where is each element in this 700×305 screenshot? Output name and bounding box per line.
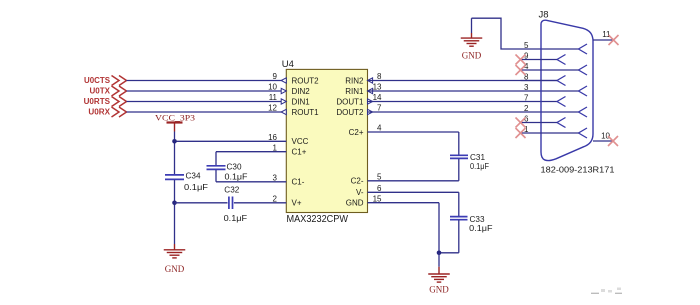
svg-text:V+: V+ bbox=[292, 199, 302, 208]
svg-text:U0TX: U0TX bbox=[90, 87, 111, 96]
J8 pin 5 contact bbox=[579, 44, 588, 54]
svg-text:RIN1: RIN1 bbox=[345, 87, 364, 96]
svg-text:0.1μF: 0.1μF bbox=[224, 213, 248, 223]
svg-text:C2+: C2+ bbox=[349, 128, 364, 137]
svg-text:U4: U4 bbox=[282, 59, 294, 70]
svg-text:9: 9 bbox=[273, 72, 278, 81]
wire V+ right segment to pin2 bbox=[234, 202, 286, 204]
no-connect X pin 10 bbox=[608, 136, 618, 146]
U4 pin ROUT1 output arrow bbox=[281, 109, 286, 114]
svg-text:11: 11 bbox=[602, 30, 611, 39]
ground GND left bbox=[164, 244, 186, 258]
U4 pin RIN2 input arrow bbox=[368, 78, 373, 83]
wire DOUT1 to J8 pin7 bbox=[368, 101, 558, 103]
svg-text:U0CTS: U0CTS bbox=[84, 76, 111, 85]
U4 pin ROUT2 output arrow bbox=[281, 78, 286, 83]
wire J8 pin 8 inner bbox=[521, 80, 558, 82]
svg-text:U0RX: U0RX bbox=[88, 108, 110, 117]
capacitor C31 bbox=[450, 155, 468, 158]
svg-text:J8: J8 bbox=[539, 10, 549, 21]
svg-text:0.1μF: 0.1μF bbox=[469, 223, 492, 233]
svg-text:U0RTS: U0RTS bbox=[84, 97, 111, 106]
wire J8 pin 6 stub bbox=[521, 122, 558, 124]
op IC U4 MAX3232CPW body bbox=[286, 69, 367, 212]
svg-text:3: 3 bbox=[273, 174, 278, 183]
wire C33 top drop bbox=[458, 192, 460, 216]
svg-text:VCC_3P3: VCC_3P3 bbox=[155, 112, 195, 122]
J8 pin 4 contact bbox=[579, 65, 588, 75]
no-connect X pin 11 bbox=[609, 35, 619, 45]
wire C30 bottom bbox=[215, 170, 217, 182]
svg-text:0.1μF: 0.1μF bbox=[470, 161, 489, 171]
wire U0CTS to U4 bbox=[127, 80, 287, 82]
wire C31 bottom drop bbox=[458, 159, 460, 181]
wire J8 pin 11 stub bbox=[593, 39, 614, 41]
wire C1+ to pin1 bbox=[216, 151, 286, 153]
U4 pin DOUT1 output arrow bbox=[368, 99, 373, 104]
svg-text:16: 16 bbox=[268, 133, 277, 142]
svg-text:GND: GND bbox=[429, 285, 449, 295]
capacitor C30 bbox=[207, 166, 226, 170]
svg-text:MAX3232CPW: MAX3232CPW bbox=[287, 214, 349, 225]
svg-text:1: 1 bbox=[273, 143, 278, 152]
wire GND pin15 bbox=[368, 202, 440, 204]
J8 pin 6 contact bbox=[557, 118, 566, 128]
wire C2+ pin4 bbox=[368, 131, 459, 133]
no-connect X pin 6 bbox=[516, 118, 526, 128]
no-connect X pin 1 bbox=[516, 128, 526, 138]
svg-text:5: 5 bbox=[377, 173, 382, 182]
svg-text:4: 4 bbox=[377, 124, 382, 133]
svg-text:RIN2: RIN2 bbox=[345, 76, 364, 85]
svg-text:2: 2 bbox=[524, 104, 529, 113]
svg-text:7: 7 bbox=[524, 94, 529, 103]
wire DOUT2 to J8 pin2 bbox=[368, 111, 579, 113]
capacitor C32 bbox=[229, 197, 233, 210]
svg-text:15: 15 bbox=[373, 194, 382, 203]
svg-text:DOUT2: DOUT2 bbox=[336, 108, 364, 117]
wire C33 bottom to junction bbox=[439, 252, 459, 254]
no-connect X pin 4 bbox=[516, 65, 526, 75]
wire J8 pin 1 stub bbox=[521, 132, 579, 134]
connector J8 shell bbox=[541, 20, 593, 160]
ground GND bottom bbox=[428, 267, 450, 282]
svg-text:182-009-213R171: 182-009-213R171 bbox=[541, 165, 615, 175]
wire pin15 drop bbox=[438, 203, 440, 253]
svg-text:5: 5 bbox=[524, 41, 529, 50]
capacitor C33 bbox=[450, 217, 468, 220]
svg-text:DIN1: DIN1 bbox=[292, 97, 311, 106]
J8 pin 9 contact bbox=[557, 55, 566, 65]
U4 pin DIN1 input arrow bbox=[281, 99, 286, 104]
J8 pin 2 contact bbox=[579, 107, 588, 117]
wire U0RTS to U4 bbox=[127, 101, 287, 103]
svg-text:DOUT1: DOUT1 bbox=[336, 97, 364, 106]
junction VCC rail bbox=[172, 139, 177, 144]
wire J8 pin 10 stub bbox=[593, 140, 614, 142]
svg-text:DIN2: DIN2 bbox=[292, 87, 311, 96]
svg-text:2: 2 bbox=[273, 195, 278, 204]
wire V+ left segment bbox=[175, 202, 228, 204]
svg-text:ROUT1: ROUT1 bbox=[292, 108, 320, 117]
svg-text:VCC: VCC bbox=[292, 137, 309, 146]
wire rail below C34 bbox=[174, 180, 176, 244]
wire VCC to pin16 bbox=[175, 140, 287, 142]
wire GND stem blue bbox=[471, 18, 473, 33]
J8 pin 8 contact bbox=[557, 76, 566, 86]
svg-text:10: 10 bbox=[268, 83, 277, 92]
wire RIN2 to J8 pin8 bbox=[368, 80, 558, 82]
capacitor C34 bbox=[165, 175, 184, 180]
wire C30 top bbox=[215, 152, 217, 166]
wire V- pin6 bbox=[368, 191, 459, 193]
wire J8 pin 9 stub bbox=[521, 59, 558, 61]
svg-text:3: 3 bbox=[524, 83, 529, 92]
wire C33 bottom drop bbox=[458, 220, 460, 253]
svg-text:6: 6 bbox=[377, 184, 382, 193]
svg-text:C1-: C1- bbox=[292, 178, 305, 187]
svg-text:11: 11 bbox=[269, 93, 278, 102]
svg-text:V-: V- bbox=[356, 188, 364, 197]
no-connect X pin 9 bbox=[516, 55, 526, 65]
junction GND net bbox=[437, 251, 442, 256]
svg-text:C30: C30 bbox=[227, 162, 242, 172]
svg-text:GND: GND bbox=[165, 264, 185, 274]
J8 pin 1 contact bbox=[579, 128, 588, 138]
U4 pin RIN1 input arrow bbox=[368, 88, 373, 93]
svg-text:GND: GND bbox=[346, 199, 364, 208]
power VCC_3P3 bar bbox=[167, 121, 183, 123]
junction V+ rail bbox=[172, 201, 177, 206]
J8 pin 7 contact bbox=[557, 97, 566, 107]
J8 pin 3 contact bbox=[579, 86, 588, 96]
wire VCC rail top bbox=[174, 132, 176, 175]
wire C31 top drop bbox=[458, 132, 460, 155]
wire RIN1 to J8 pin3 bbox=[368, 90, 579, 92]
wire C2- pin5 bbox=[368, 180, 459, 182]
wire GND top to J8 pin5 bbox=[472, 18, 579, 49]
svg-text:0.1μF: 0.1μF bbox=[184, 182, 208, 192]
ground GND at J8 bbox=[461, 33, 483, 46]
svg-text:12: 12 bbox=[268, 104, 277, 113]
wire C1- to pin3 bbox=[216, 181, 286, 183]
svg-text:C1+: C1+ bbox=[292, 148, 307, 157]
svg-text:C32: C32 bbox=[224, 185, 239, 195]
U4 pin DOUT2 output arrow bbox=[368, 109, 373, 114]
svg-text:GND: GND bbox=[462, 51, 482, 61]
U4 pin DIN2 input arrow bbox=[281, 88, 286, 93]
wire U0TX to U4 bbox=[127, 90, 287, 92]
svg-text:C2-: C2- bbox=[351, 177, 364, 186]
svg-text:C34: C34 bbox=[186, 170, 201, 180]
svg-text:0.1μF: 0.1μF bbox=[225, 172, 248, 182]
wire U0RX to U4 bbox=[127, 111, 287, 113]
wire J8 pin 4 stub bbox=[521, 69, 579, 71]
watermark remnant bbox=[591, 292, 622, 294]
wire junction to ground bbox=[438, 253, 440, 267]
svg-text:ROUT2: ROUT2 bbox=[292, 76, 320, 85]
